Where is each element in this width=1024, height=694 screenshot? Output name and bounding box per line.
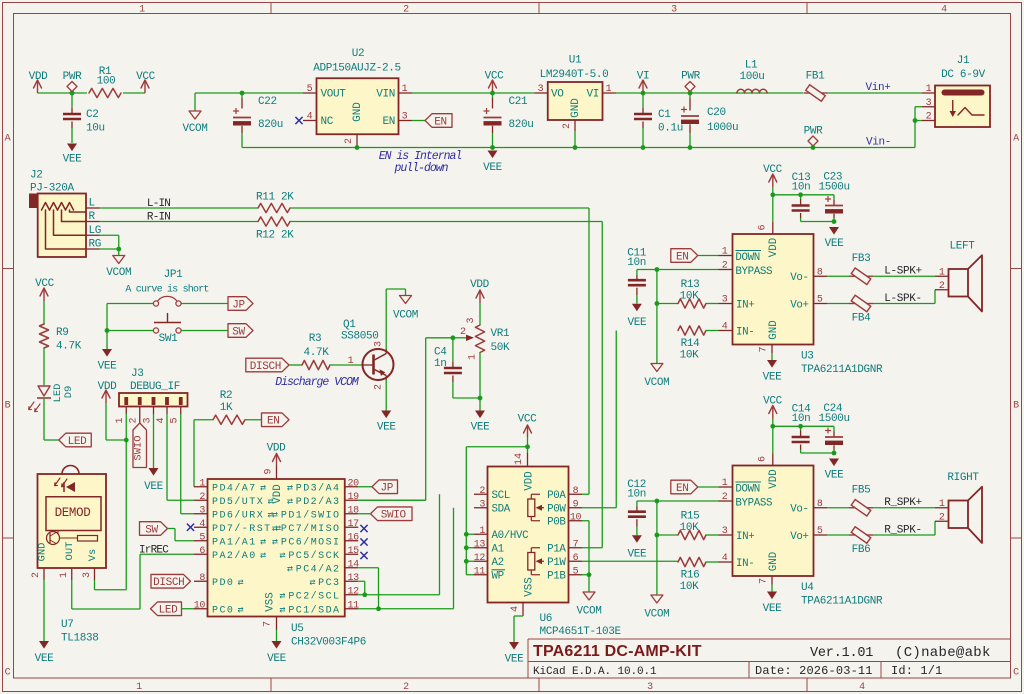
svg-text:VIN: VIN xyxy=(376,89,395,101)
svg-text:2: 2 xyxy=(403,682,409,693)
svg-text:2: 2 xyxy=(199,492,205,503)
svg-text:PD6/URX: PD6/URX xyxy=(212,510,264,522)
svg-text:R12 2K: R12 2K xyxy=(256,230,294,242)
svg-text:6: 6 xyxy=(573,553,579,564)
svg-text:D9: D9 xyxy=(63,386,75,399)
svg-text:NC: NC xyxy=(321,116,334,128)
svg-text:VCC: VCC xyxy=(485,71,505,83)
svg-text:3: 3 xyxy=(722,295,728,306)
svg-text:10n: 10n xyxy=(792,182,811,194)
svg-text:FB6: FB6 xyxy=(852,544,871,556)
svg-text:PD2/A3: PD2/A3 xyxy=(296,496,341,508)
svg-text:3: 3 xyxy=(142,417,153,423)
svg-text:5: 5 xyxy=(307,84,313,95)
svg-text:VCC: VCC xyxy=(518,414,538,426)
svg-text:14: 14 xyxy=(514,453,525,465)
svg-text:TPA6211A1DGNR: TPA6211A1DGNR xyxy=(801,596,883,608)
svg-text:U7: U7 xyxy=(61,619,74,631)
svg-text:VCOM: VCOM xyxy=(576,606,601,618)
svg-text:3: 3 xyxy=(479,499,485,510)
svg-text:7: 7 xyxy=(263,621,274,627)
svg-text:11: 11 xyxy=(348,600,360,611)
svg-text:8: 8 xyxy=(573,486,579,497)
svg-text:A: A xyxy=(1013,134,1019,145)
svg-text:50K: 50K xyxy=(491,342,511,354)
svg-text:FB1: FB1 xyxy=(806,71,826,83)
svg-text:VCOM: VCOM xyxy=(644,609,669,621)
svg-text:8: 8 xyxy=(817,499,823,510)
svg-text:PC6/MOSI: PC6/MOSI xyxy=(281,537,341,549)
svg-text:WP: WP xyxy=(492,571,504,583)
svg-text:VCOM: VCOM xyxy=(182,123,207,135)
svg-text:J3: J3 xyxy=(131,368,144,380)
svg-text:12: 12 xyxy=(348,586,360,597)
svg-text:⇄: ⇄ xyxy=(272,511,278,522)
svg-text:1: 1 xyxy=(402,84,408,95)
svg-text:VI: VI xyxy=(586,89,599,101)
svg-text:C: C xyxy=(5,668,11,679)
svg-text:DISCH: DISCH xyxy=(153,577,184,589)
svg-text:PA1/A1: PA1/A1 xyxy=(212,537,257,549)
svg-text:P1B: P1B xyxy=(547,571,566,583)
svg-text:L1: L1 xyxy=(745,60,758,72)
svg-text:VEE: VEE xyxy=(377,422,397,434)
svg-text:VEE: VEE xyxy=(98,361,118,373)
svg-text:P1W: P1W xyxy=(547,557,566,569)
svg-text:6: 6 xyxy=(199,546,205,557)
svg-text:820u: 820u xyxy=(509,119,534,131)
svg-text:VEE: VEE xyxy=(825,238,845,250)
svg-text:2: 2 xyxy=(562,123,573,129)
svg-text:4: 4 xyxy=(722,553,728,564)
svg-text:7: 7 xyxy=(573,539,579,550)
svg-text:1: 1 xyxy=(939,499,945,510)
svg-text:1500u: 1500u xyxy=(819,182,850,194)
svg-text:SW: SW xyxy=(145,524,158,536)
svg-text:4: 4 xyxy=(156,417,167,423)
svg-text:VEE: VEE xyxy=(483,162,503,174)
svg-text:R14: R14 xyxy=(681,338,701,350)
svg-text:CH32V003F4P6: CH32V003F4P6 xyxy=(291,637,366,649)
svg-text:SWIO: SWIO xyxy=(381,510,407,522)
svg-text:GND: GND xyxy=(768,320,780,339)
svg-text:820u: 820u xyxy=(258,119,283,131)
svg-text:C1: C1 xyxy=(658,109,671,121)
svg-text:Q1: Q1 xyxy=(343,319,356,331)
svg-text:GND: GND xyxy=(570,98,582,118)
svg-text:4.7K: 4.7K xyxy=(56,341,82,353)
svg-text:J2: J2 xyxy=(30,170,43,182)
svg-text:A0/HVC: A0/HVC xyxy=(492,530,530,542)
svg-text:EN: EN xyxy=(267,416,280,428)
svg-text:VDD: VDD xyxy=(768,469,780,488)
svg-text:4: 4 xyxy=(510,606,521,612)
svg-text:A curve is short: A curve is short xyxy=(125,284,208,296)
svg-text:GND: GND xyxy=(352,102,364,122)
svg-text:Vo+: Vo+ xyxy=(790,531,808,543)
svg-text:A: A xyxy=(5,134,11,145)
svg-text:pull-down: pull-down xyxy=(393,162,448,175)
svg-text:VEE: VEE xyxy=(763,372,783,384)
svg-text:VCOM: VCOM xyxy=(644,377,669,389)
svg-text:3: 3 xyxy=(926,98,932,109)
svg-text:IN-: IN- xyxy=(736,558,754,570)
svg-text:⇄: ⇄ xyxy=(287,565,293,576)
svg-text:IN-: IN- xyxy=(736,326,754,338)
svg-text:PWR: PWR xyxy=(63,71,83,83)
svg-text:⇄: ⇄ xyxy=(287,484,293,495)
svg-text:PC2/SCL: PC2/SCL xyxy=(288,591,340,603)
svg-text:9: 9 xyxy=(264,468,275,474)
svg-text:L-SPK+: L-SPK+ xyxy=(884,266,922,278)
svg-text:LED: LED xyxy=(159,605,179,617)
svg-text:VDD: VDD xyxy=(768,238,780,257)
svg-text:2: 2 xyxy=(31,572,42,578)
svg-text:C2: C2 xyxy=(86,109,99,121)
svg-text:IN+: IN+ xyxy=(736,531,754,543)
svg-text:VEE: VEE xyxy=(471,422,491,434)
svg-text:EN: EN xyxy=(434,116,447,128)
svg-text:PA2/A0: PA2/A0 xyxy=(212,550,257,562)
svg-text:⇄: ⇄ xyxy=(287,497,293,508)
svg-text:P1A: P1A xyxy=(547,544,566,556)
svg-text:⇄: ⇄ xyxy=(272,524,278,535)
svg-text:BYPASS: BYPASS xyxy=(735,266,772,278)
svg-text:1K: 1K xyxy=(220,402,233,414)
svg-text:VEE: VEE xyxy=(825,470,845,482)
svg-text:6: 6 xyxy=(758,456,769,462)
svg-text:10u: 10u xyxy=(86,123,105,135)
svg-text:3: 3 xyxy=(82,572,93,578)
svg-text:LEFT: LEFT xyxy=(949,241,975,253)
svg-text:A1: A1 xyxy=(492,544,504,556)
svg-text:RG: RG xyxy=(89,239,102,251)
svg-text:R9: R9 xyxy=(56,327,69,339)
svg-text:⇄: ⇄ xyxy=(279,606,285,617)
svg-text:7: 7 xyxy=(759,578,770,584)
svg-text:L-SPK-: L-SPK- xyxy=(884,293,922,305)
svg-text:19: 19 xyxy=(348,492,360,503)
svg-text:17: 17 xyxy=(348,519,360,530)
svg-text:10K: 10K xyxy=(680,522,700,534)
svg-text:10n: 10n xyxy=(627,489,646,501)
svg-text:14: 14 xyxy=(348,559,360,570)
svg-text:FB4: FB4 xyxy=(852,313,872,325)
svg-text:5: 5 xyxy=(817,295,823,306)
svg-text:J1: J1 xyxy=(957,55,970,67)
svg-text:1: 1 xyxy=(926,84,932,95)
svg-text:8: 8 xyxy=(199,573,205,584)
svg-text:VEE: VEE xyxy=(628,549,648,561)
svg-text:5: 5 xyxy=(199,532,205,543)
svg-text:VCOM: VCOM xyxy=(106,267,131,279)
svg-text:VOUT: VOUT xyxy=(321,89,347,101)
svg-text:ADP150AUJZ-2.5: ADP150AUJZ-2.5 xyxy=(313,63,401,75)
svg-text:R16: R16 xyxy=(681,570,700,582)
svg-text:EN: EN xyxy=(382,116,395,128)
svg-text:20: 20 xyxy=(348,478,360,489)
svg-text:6: 6 xyxy=(758,224,769,230)
svg-text:10n: 10n xyxy=(792,413,811,425)
svg-text:VO: VO xyxy=(551,89,564,101)
svg-text:Vo-: Vo- xyxy=(790,272,808,284)
svg-text:10K: 10K xyxy=(680,581,700,593)
svg-text:BYPASS: BYPASS xyxy=(735,498,772,510)
svg-text:PC1/SDA: PC1/SDA xyxy=(288,605,340,617)
svg-text:L-IN: L-IN xyxy=(147,198,170,210)
svg-text:DOWN: DOWN xyxy=(735,252,760,264)
svg-text:1: 1 xyxy=(136,682,142,693)
svg-text:R-IN: R-IN xyxy=(147,212,170,224)
svg-text:1: 1 xyxy=(139,5,145,16)
svg-text:A2: A2 xyxy=(492,557,504,569)
svg-text:⇄: ⇄ xyxy=(260,551,266,562)
svg-text:C22: C22 xyxy=(258,96,277,108)
svg-text:11: 11 xyxy=(474,566,486,577)
svg-text:2: 2 xyxy=(722,261,728,272)
svg-text:R_SPK+: R_SPK+ xyxy=(884,497,922,509)
svg-text:Vo-: Vo- xyxy=(790,504,808,516)
svg-text:OUT: OUT xyxy=(64,542,76,561)
svg-text:LG: LG xyxy=(89,225,102,237)
svg-text:18: 18 xyxy=(348,505,360,516)
svg-text:1: 1 xyxy=(722,478,728,489)
svg-text:4: 4 xyxy=(859,682,865,693)
svg-text:⇄: ⇄ xyxy=(272,538,278,549)
svg-text:Vin-: Vin- xyxy=(866,137,891,149)
svg-text:0.1u: 0.1u xyxy=(658,123,683,135)
svg-text:2: 2 xyxy=(403,5,409,16)
svg-text:4: 4 xyxy=(307,112,313,123)
svg-text:2: 2 xyxy=(939,512,945,523)
svg-text:JP: JP xyxy=(380,483,393,495)
svg-text:1: 1 xyxy=(468,354,479,360)
svg-text:2: 2 xyxy=(479,486,485,497)
svg-text:U1: U1 xyxy=(569,55,582,67)
svg-text:SS8050: SS8050 xyxy=(341,331,379,343)
svg-text:4: 4 xyxy=(722,322,728,333)
svg-text:3: 3 xyxy=(466,317,477,323)
svg-text:⇄: ⇄ xyxy=(279,592,285,603)
svg-text:3: 3 xyxy=(402,112,408,123)
svg-text:PD5/UTX: PD5/UTX xyxy=(212,496,264,508)
svg-text:Id: 1/1: Id: 1/1 xyxy=(891,664,942,678)
svg-text:⇄: ⇄ xyxy=(309,578,315,589)
svg-text:13: 13 xyxy=(474,539,486,550)
svg-text:C4: C4 xyxy=(434,347,447,359)
svg-text:Ver.1.01: Ver.1.01 xyxy=(810,646,873,661)
svg-text:VDD: VDD xyxy=(267,443,287,455)
svg-text:2: 2 xyxy=(129,417,140,423)
svg-text:VDD: VDD xyxy=(29,71,49,83)
svg-text:U3: U3 xyxy=(801,351,814,363)
svg-text:U4: U4 xyxy=(801,582,814,594)
svg-text:(C)nabe@abk: (C)nabe@abk xyxy=(895,645,991,661)
svg-text:PC3: PC3 xyxy=(318,578,340,589)
svg-text:GND: GND xyxy=(768,552,780,571)
svg-text:1000u: 1000u xyxy=(707,122,738,134)
svg-text:2: 2 xyxy=(939,281,945,292)
svg-text:10K: 10K xyxy=(680,350,700,362)
svg-text:VEE: VEE xyxy=(628,317,648,329)
svg-text:PWR: PWR xyxy=(804,126,824,138)
svg-text:R: R xyxy=(89,211,96,223)
svg-text:DC 6-9V: DC 6-9V xyxy=(941,69,986,81)
svg-text:TPA6211A1DGNR: TPA6211A1DGNR xyxy=(801,364,883,376)
svg-text:4: 4 xyxy=(199,519,205,530)
svg-text:1: 1 xyxy=(59,572,70,578)
svg-text:B: B xyxy=(5,401,11,412)
svg-text:2: 2 xyxy=(722,492,728,503)
svg-text:Discharge VCOM: Discharge VCOM xyxy=(275,376,360,389)
svg-text:DISCH: DISCH xyxy=(250,361,281,373)
svg-text:Date: 2026-03-11: Date: 2026-03-11 xyxy=(755,664,873,678)
svg-text:MCP4651T-103E: MCP4651T-103E xyxy=(540,626,622,638)
svg-text:VSS: VSS xyxy=(265,592,277,611)
svg-text:P0A: P0A xyxy=(547,490,566,502)
svg-text:EN: EN xyxy=(676,483,689,495)
svg-text:2: 2 xyxy=(374,384,385,390)
svg-text:VR1: VR1 xyxy=(491,328,511,340)
svg-text:1: 1 xyxy=(479,526,485,537)
svg-text:U6: U6 xyxy=(540,613,553,625)
svg-text:SWIO: SWIO xyxy=(133,435,145,460)
svg-text:PC7/MISO: PC7/MISO xyxy=(281,523,341,535)
svg-text:PC0: PC0 xyxy=(212,606,234,617)
svg-text:8: 8 xyxy=(817,267,823,278)
svg-text:10n: 10n xyxy=(627,257,646,269)
svg-text:RIGHT: RIGHT xyxy=(947,472,979,484)
svg-text:VEE: VEE xyxy=(144,481,164,493)
svg-text:PD3/A4: PD3/A4 xyxy=(296,483,341,495)
svg-text:VEE: VEE xyxy=(35,653,55,665)
svg-text:U2: U2 xyxy=(352,48,365,60)
svg-text:VDD: VDD xyxy=(470,279,490,291)
svg-text:B: B xyxy=(1013,401,1019,412)
svg-text:FB3: FB3 xyxy=(852,253,871,265)
svg-text:PC4/A2: PC4/A2 xyxy=(296,564,341,576)
svg-text:KiCad E.D.A. 10.0.1: KiCad E.D.A. 10.0.1 xyxy=(533,666,657,678)
svg-text:SDA: SDA xyxy=(492,504,511,516)
svg-text:VSS: VSS xyxy=(524,577,536,596)
svg-text:VCC: VCC xyxy=(136,71,156,83)
svg-text:VEE: VEE xyxy=(267,653,287,665)
svg-text:3: 3 xyxy=(647,682,653,693)
svg-text:FB5: FB5 xyxy=(852,485,871,497)
svg-text:3: 3 xyxy=(199,505,205,516)
svg-text:SCL: SCL xyxy=(492,490,510,502)
svg-text:⇄: ⇄ xyxy=(238,578,244,589)
svg-text:SW: SW xyxy=(232,326,245,338)
svg-text:JP: JP xyxy=(232,299,245,311)
svg-text:PJ-320A: PJ-320A xyxy=(30,183,75,195)
svg-text:⇄: ⇄ xyxy=(238,606,244,617)
svg-text:VEE: VEE xyxy=(505,654,525,666)
svg-text:⇄: ⇄ xyxy=(260,484,266,495)
svg-text:⇄: ⇄ xyxy=(260,538,266,549)
svg-text:4: 4 xyxy=(941,5,947,16)
svg-text:Vin+: Vin+ xyxy=(865,82,890,94)
svg-text:Vo+: Vo+ xyxy=(790,299,808,311)
svg-text:PD7/-RST: PD7/-RST xyxy=(212,523,272,535)
svg-text:⇄: ⇄ xyxy=(279,551,285,562)
svg-text:16: 16 xyxy=(348,532,360,543)
svg-text:SW1: SW1 xyxy=(159,333,179,345)
svg-text:P0B: P0B xyxy=(547,517,566,529)
svg-text:U5: U5 xyxy=(291,623,304,635)
svg-text:C: C xyxy=(1013,668,1019,679)
svg-text:10: 10 xyxy=(194,600,206,611)
svg-text:1n: 1n xyxy=(434,358,447,370)
svg-text:R3: R3 xyxy=(309,333,322,345)
svg-text:VDD: VDD xyxy=(524,471,536,490)
svg-text:5: 5 xyxy=(573,566,579,577)
svg-text:R15: R15 xyxy=(681,511,700,523)
svg-text:100: 100 xyxy=(97,76,116,88)
svg-text:R_SPK-: R_SPK- xyxy=(884,525,922,537)
svg-text:1: 1 xyxy=(606,84,612,95)
svg-text:PD1/SWIO: PD1/SWIO xyxy=(281,510,341,522)
svg-text:3: 3 xyxy=(671,5,677,16)
svg-text:1: 1 xyxy=(115,417,126,423)
svg-text:PC5/SCK: PC5/SCK xyxy=(288,550,340,562)
svg-text:1: 1 xyxy=(939,267,945,278)
svg-text:7: 7 xyxy=(759,346,770,352)
svg-text:1: 1 xyxy=(199,478,205,489)
svg-text:R11 2K: R11 2K xyxy=(256,192,294,204)
svg-text:1: 1 xyxy=(722,247,728,258)
svg-text:R13: R13 xyxy=(681,279,700,291)
svg-text:VDD: VDD xyxy=(272,484,284,503)
svg-text:DOWN: DOWN xyxy=(735,484,760,496)
svg-text:VEE: VEE xyxy=(63,154,83,166)
svg-text:3: 3 xyxy=(722,526,728,537)
svg-text:C20: C20 xyxy=(707,107,726,119)
svg-text:VCOM: VCOM xyxy=(393,310,418,322)
svg-text:DEBUG_IF: DEBUG_IF xyxy=(130,381,180,393)
svg-text:IN+: IN+ xyxy=(736,299,754,311)
svg-text:IrREC: IrREC xyxy=(139,545,169,557)
svg-text:13: 13 xyxy=(348,573,360,584)
svg-text:2: 2 xyxy=(926,112,932,123)
svg-text:L: L xyxy=(89,198,95,210)
svg-text:10: 10 xyxy=(570,512,582,523)
svg-text:DEMOD: DEMOD xyxy=(55,506,91,520)
svg-text:4.7K: 4.7K xyxy=(303,347,329,359)
svg-text:C21: C21 xyxy=(509,96,529,108)
svg-text:100u: 100u xyxy=(739,71,764,83)
svg-text:PD4/A7: PD4/A7 xyxy=(212,483,257,495)
svg-text:PD0: PD0 xyxy=(212,578,234,589)
svg-text:3: 3 xyxy=(538,84,544,95)
svg-text:Vs: Vs xyxy=(87,549,99,562)
svg-text:12: 12 xyxy=(474,553,486,564)
svg-text:EN: EN xyxy=(676,251,689,263)
svg-text:TL1838: TL1838 xyxy=(61,633,99,645)
svg-text:2: 2 xyxy=(460,327,466,338)
svg-text:2: 2 xyxy=(344,138,355,144)
svg-text:P0W: P0W xyxy=(547,504,566,516)
svg-text:5: 5 xyxy=(170,417,181,423)
svg-text:1500u: 1500u xyxy=(819,413,850,425)
svg-text:PWR: PWR xyxy=(681,71,701,83)
svg-text:10K: 10K xyxy=(680,291,700,303)
svg-text:5: 5 xyxy=(817,526,823,537)
svg-text:1: 1 xyxy=(348,356,354,367)
svg-text:R2: R2 xyxy=(220,390,233,402)
svg-text:9: 9 xyxy=(573,499,579,510)
svg-text:JP1: JP1 xyxy=(164,269,184,281)
